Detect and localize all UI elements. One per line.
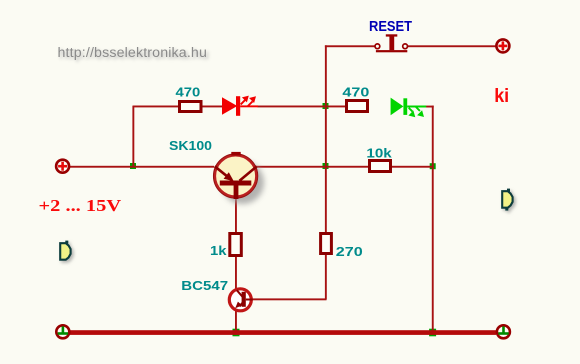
wire elbow to Q2 collector xyxy=(251,298,327,300)
wire ground rail xyxy=(70,330,496,335)
wire reset vertical xyxy=(325,45,327,107)
label supply voltage xyxy=(39,196,122,215)
svg-text:470: 470 xyxy=(176,86,201,100)
svg-text:ki: ki xyxy=(494,86,509,107)
resistor R3 10k xyxy=(370,161,391,172)
label Q2 BC547 xyxy=(181,279,228,293)
label R1 value 470 xyxy=(176,86,201,100)
terminal T2 plus xyxy=(496,39,509,52)
svg-text:470: 470 xyxy=(342,86,369,100)
svg-text:+2 ... 15V: +2 ... 15V xyxy=(39,196,122,215)
terminal T3 ground xyxy=(56,325,69,338)
transistor Q2 BC547 xyxy=(229,289,253,311)
resistor R2 470 xyxy=(347,101,368,112)
svg-text:1k: 1k xyxy=(210,244,227,258)
wire node B to R5 xyxy=(325,107,327,234)
wire Q1 base to R4 xyxy=(235,197,237,234)
indicator flag left xyxy=(60,241,70,260)
wire node A vertical xyxy=(132,106,134,168)
watermark url text xyxy=(58,45,208,61)
wire V+ rail left xyxy=(70,166,214,168)
resistor R4 1k xyxy=(230,234,242,256)
wire R5 to elbow xyxy=(325,254,327,300)
pushbutton S1 RESET xyxy=(375,34,408,52)
wire D1 to node B xyxy=(258,106,326,108)
label RESET xyxy=(369,18,412,35)
wire reset left xyxy=(325,45,375,47)
junction node E xyxy=(233,329,240,337)
LED D1 red xyxy=(222,96,258,116)
svg-text:BC547: BC547 xyxy=(181,279,228,293)
svg-text:270: 270 xyxy=(336,245,363,259)
wire R4 to Q2 xyxy=(235,256,237,289)
junction node C xyxy=(323,163,329,169)
wire D2 corner xyxy=(426,106,434,108)
resistor R1 470 xyxy=(180,102,202,112)
label R5 value 270 xyxy=(336,245,363,259)
wire 10k to node D xyxy=(392,166,434,168)
label R4 value 1k xyxy=(210,244,227,258)
junction node A xyxy=(130,163,136,169)
label R3 value 10k xyxy=(366,147,391,161)
svg-text:10k: 10k xyxy=(366,147,391,161)
resistor R5 270 xyxy=(321,234,332,254)
wire R1 to D1 xyxy=(202,106,223,108)
indicator flag right xyxy=(502,189,512,211)
label Q1 SK100 xyxy=(169,139,212,153)
wire Q2 to ground rail xyxy=(235,311,237,332)
svg-text:http://bsselektronika.hu: http://bsselektronika.hu xyxy=(58,45,208,61)
wire node A to R1 xyxy=(133,106,179,108)
junction node B xyxy=(323,103,329,109)
wire reset right xyxy=(408,45,496,47)
transistor Q1 SK100 xyxy=(213,152,264,204)
wire node D vertical xyxy=(432,106,434,333)
terminal T4 ground xyxy=(497,325,510,338)
svg-text:RESET: RESET xyxy=(369,18,412,35)
junction node F xyxy=(429,329,436,337)
svg-text:SK100: SK100 xyxy=(169,139,212,153)
wire collector rail xyxy=(257,166,369,168)
label ki xyxy=(494,86,509,107)
LED D2 green xyxy=(391,98,427,118)
label R2 value 470 xyxy=(342,86,369,100)
junction node D xyxy=(430,163,436,169)
wire node B to R2 xyxy=(326,106,346,108)
terminal T1 plus xyxy=(56,160,69,173)
